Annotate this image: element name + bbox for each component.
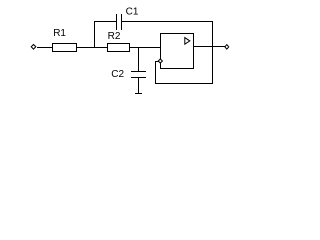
svg-text:C2: C2 bbox=[111, 69, 124, 80]
svg-text:C1: C1 bbox=[126, 7, 139, 18]
svg-text:R2: R2 bbox=[108, 31, 121, 42]
svg-text:R1: R1 bbox=[53, 28, 66, 39]
